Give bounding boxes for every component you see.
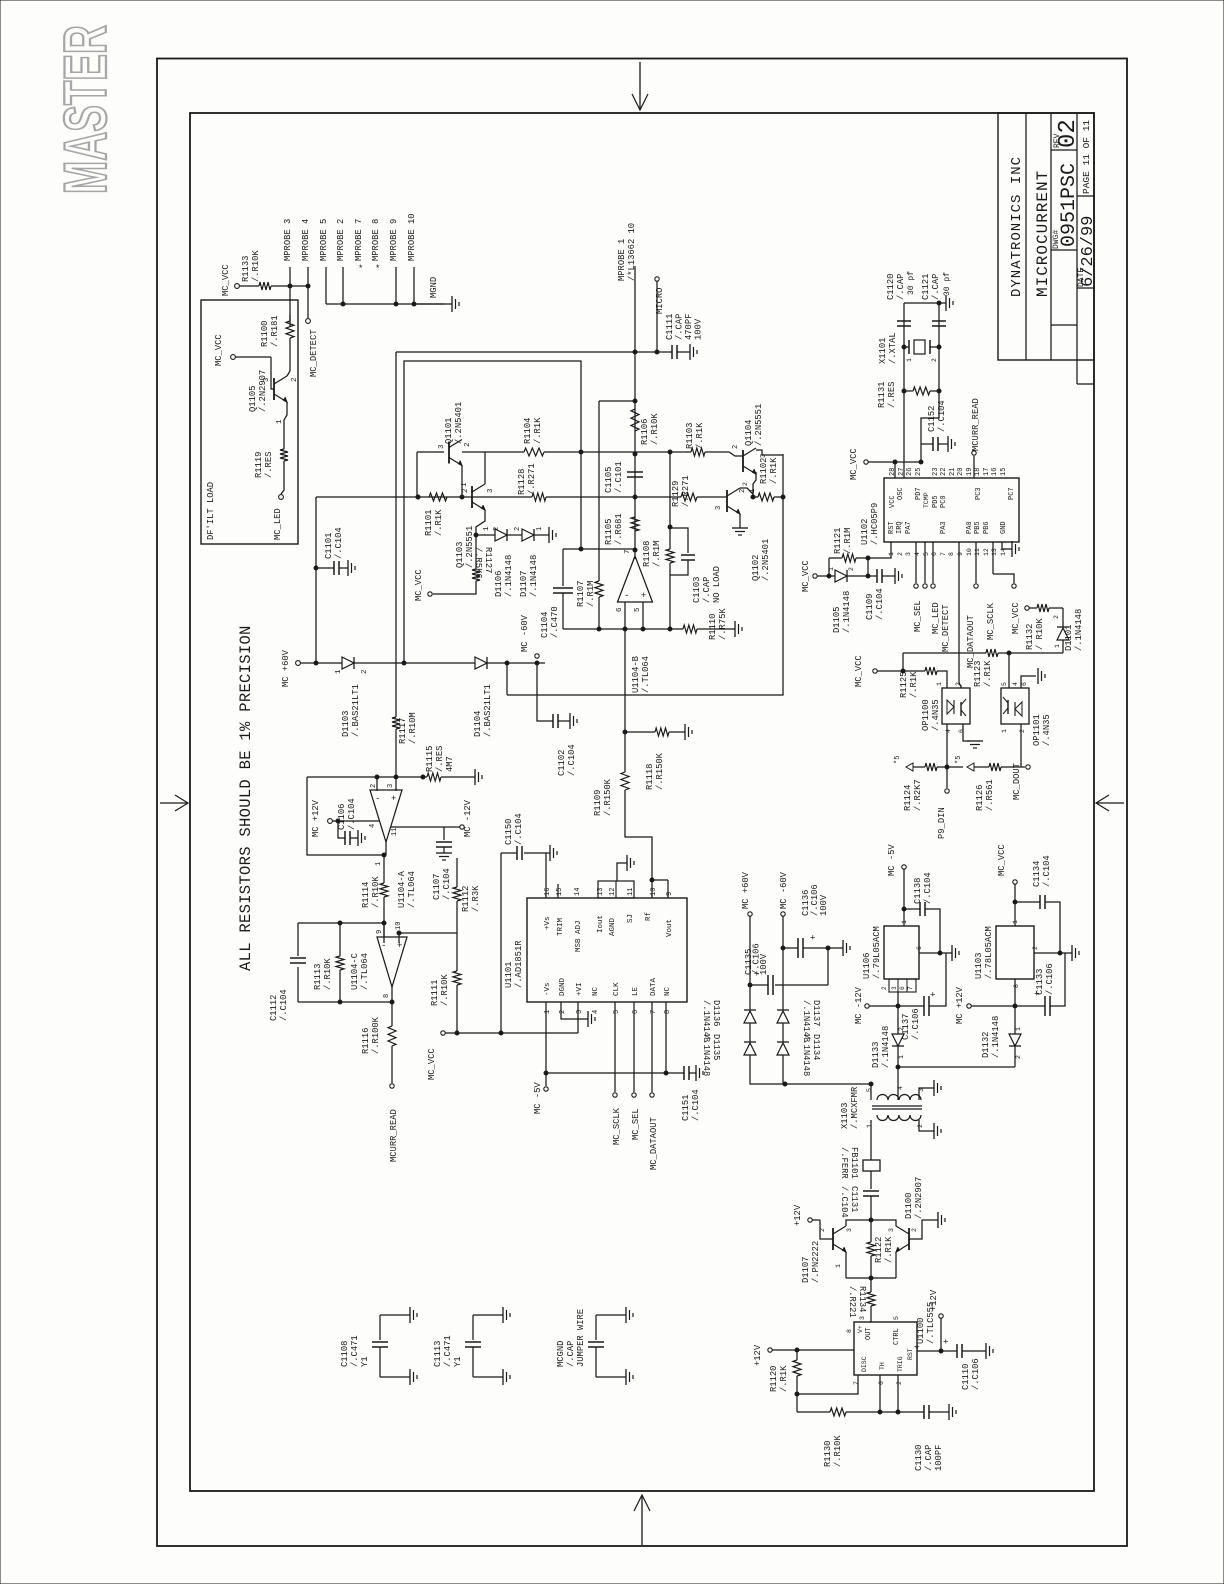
svg-text:2: 2	[896, 1381, 903, 1385]
wire to Q1105 base	[271, 357, 274, 389]
wire R1133 to bus	[271, 285, 308, 287]
wire MPROBE10	[413, 267, 415, 304]
svg-text:/.R10M: /.R10M	[408, 712, 418, 744]
svg-text:C1138: C1138	[913, 878, 923, 904]
wire Q1107 collector	[846, 1220, 871, 1226]
svg-text:R1117: R1117	[398, 718, 408, 744]
svg-text:R1105: R1105	[604, 519, 614, 545]
svg-text:3: 3	[891, 986, 898, 990]
svg-text:2: 2	[931, 358, 938, 362]
svg-text:/.CAP: /.CAP	[896, 274, 906, 300]
svg-text:3: 3	[387, 784, 395, 788]
svg-text:/.C471: /.C471	[350, 1335, 360, 1367]
svg-text:6: 6	[899, 986, 906, 990]
wire y454 b	[635, 451, 691, 453]
svg-text:4: 4	[592, 1010, 600, 1014]
svg-text:3: 3	[487, 488, 495, 493]
capacitor C1137	[923, 996, 925, 1016]
svg-text:ALL RESISTORS SHOULD BE 1% PRE: ALL RESISTORS SHOULD BE 1% PRECISION	[237, 625, 255, 971]
svg-text:+: +	[942, 1339, 952, 1344]
ground MSB box	[617, 863, 627, 881]
ground C1151	[689, 1072, 696, 1074]
svg-text:1: 1	[1001, 729, 1008, 733]
wire R1134 pin3	[869, 1321, 871, 1323]
svg-text:3: 3	[263, 377, 271, 382]
svg-text:/.R10K: /.R10K	[371, 876, 381, 908]
wire R1120 down	[796, 1376, 798, 1412]
wire pin3 drop	[577, 1002, 579, 1033]
capacitor C1105	[627, 471, 643, 473]
wire Q1105 emitter	[284, 402, 287, 449]
svg-text:DGND: DGND	[559, 977, 567, 996]
wire Q1102 base	[722, 496, 727, 498]
svg-text:/.R75K: /.R75K	[718, 608, 728, 640]
svg-text:2: 2	[739, 489, 747, 493]
wire pin1 rst	[856, 542, 891, 558]
svg-text:6: 6	[931, 552, 938, 556]
wire y1073	[546, 1072, 684, 1074]
wire pin5 led	[924, 542, 926, 583]
svg-text:V+: V+	[857, 1325, 864, 1333]
svg-text:MC -12V: MC -12V	[854, 986, 864, 1024]
svg-text:MSB ADJ: MSB ADJ	[575, 920, 583, 952]
svg-text:/.TL064: /.TL064	[407, 871, 417, 908]
capacitor C1151	[683, 1066, 685, 1080]
svg-text:C1110: C1110	[961, 1364, 971, 1390]
ferrite FB1101	[863, 1160, 880, 1171]
svg-text:3: 3	[715, 506, 723, 510]
wire pin1 drop	[545, 1002, 547, 1073]
svg-text:/.TL064: /.TL064	[360, 953, 370, 990]
svg-text:Q1104: Q1104	[744, 420, 754, 446]
transistor Q1107 PN2222	[832, 1228, 834, 1250]
svg-text:R1128: R1128	[517, 469, 527, 495]
svg-text:PA3: PA3	[940, 521, 948, 534]
svg-text:R1123: R1123	[973, 661, 983, 687]
svg-text:/.R10K: /.R10K	[251, 250, 261, 282]
wire pin2 gnd	[561, 1002, 588, 1019]
svg-text:/.R1K: /.R1K	[533, 417, 543, 444]
capacitor C1101	[316, 567, 334, 569]
svg-text:4: 4	[914, 552, 921, 556]
svg-text:1: 1	[901, 920, 908, 924]
svg-text:MC_SEL: MC_SEL	[631, 1108, 641, 1140]
wire loop C bottom	[298, 1001, 392, 1003]
node MCURR_READ right	[972, 451, 976, 455]
svg-text:*5: *5	[894, 756, 902, 764]
svg-text:6: 6	[878, 1381, 885, 1385]
wire loop C top	[298, 922, 384, 924]
wire y653 left leg	[902, 653, 904, 671]
svg-text:/.R150K: /.R150K	[655, 752, 665, 790]
diode D1135	[744, 1043, 756, 1055]
svg-text:C1107: C1107	[432, 874, 442, 900]
svg-text:MC_SEL: MC_SEL	[913, 600, 923, 632]
svg-text:C1101: C1101	[324, 533, 334, 559]
transistor Q1102	[726, 490, 728, 512]
svg-text:/.R1K: /.R1K	[779, 1365, 789, 1392]
svg-text:/ R10K: / R10K	[1035, 618, 1045, 650]
svg-text:D1101: D1101	[1064, 625, 1074, 651]
resistor R1129	[681, 493, 697, 501]
svg-text:100V: 100V	[819, 894, 829, 916]
svg-text:TRIM: TRIM	[557, 917, 565, 936]
svg-text:R1111: R1111	[430, 980, 440, 1006]
wire X1103 pin2	[919, 1120, 934, 1131]
svg-text:8: 8	[846, 1329, 853, 1333]
regulator U1103 78L05ACM	[996, 926, 1034, 979]
diode D1137	[777, 1011, 789, 1023]
svg-text:2: 2	[742, 482, 749, 486]
box U1106 pins	[889, 979, 916, 992]
svg-text:R1107: R1107	[576, 581, 586, 607]
svg-text:1: 1	[906, 358, 913, 362]
border inner frame	[190, 113, 1094, 1491]
resistor R1108	[669, 527, 671, 549]
wire MPROBE5	[325, 267, 327, 304]
svg-text:R1109: R1109	[593, 790, 603, 816]
svg-text:P9_DIN: P9_DIN	[937, 807, 947, 839]
svg-text:16: 16	[544, 888, 552, 896]
svg-text:/.C104: /.C104	[937, 400, 947, 432]
wire D1134 down	[782, 1055, 784, 1084]
resistor R1132	[1037, 604, 1049, 612]
svg-text:/.79L05ACM: /.79L05ACM	[872, 926, 882, 979]
svg-text:4: 4	[1012, 682, 1019, 686]
wire OP1101 pin2 down	[1020, 724, 1022, 767]
capacitor C1120	[897, 320, 911, 322]
ground D1107b	[534, 534, 549, 536]
resistor R1110	[683, 625, 697, 633]
svg-text:MC_LED: MC_LED	[273, 508, 283, 540]
svg-text:X1103: X1103	[840, 1103, 850, 1129]
resistor R1102	[753, 496, 758, 498]
svg-text:2: 2	[464, 442, 472, 447]
title block grid	[998, 113, 1094, 360]
svg-text:MC_VCC: MC_VCC	[801, 560, 811, 592]
wire pin6 detect	[932, 542, 934, 583]
svg-text:/.C101: /.C101	[614, 461, 624, 493]
diode D1133	[892, 1034, 904, 1046]
wire X1103 pin4	[897, 1085, 899, 1100]
svg-text:0951PSC: 0951PSC	[1058, 163, 1081, 247]
resistor R1113	[339, 923, 341, 956]
svg-text:1: 1	[375, 862, 383, 866]
svg-text:R1122: R1122	[874, 1237, 884, 1263]
svg-text:R1103: R1103	[685, 423, 695, 449]
wire pin15 stub	[557, 884, 559, 898]
svg-text:2: 2	[898, 1027, 905, 1031]
svg-text:1: 1	[828, 567, 835, 571]
svg-text:PA0: PA0	[966, 521, 974, 534]
svg-text:3: 3	[846, 1228, 853, 1232]
wire xtal top	[904, 302, 939, 304]
transistor Q1103	[471, 486, 473, 508]
node MC_VCC u1103	[1013, 880, 1017, 884]
wire FB1101 down	[870, 1171, 872, 1189]
op-amp U1104-A	[370, 790, 402, 842]
wire y454	[581, 451, 635, 453]
svg-text:D1105: D1105	[832, 607, 842, 633]
wire Q1107 base	[820, 1220, 833, 1239]
node MC_VCC rst	[813, 574, 817, 578]
ground C1102	[558, 720, 570, 722]
svg-text:18: 18	[974, 468, 982, 476]
wire MPROBE9	[395, 267, 397, 304]
capacitor C1150	[501, 852, 517, 854]
wire D1135 down	[750, 1055, 871, 1084]
svg-text:1: 1	[544, 1010, 552, 1014]
svg-text:11: 11	[974, 548, 981, 556]
svg-text:/.R1K: /.R1K	[909, 671, 919, 698]
svg-text:/.R2K7: /.R2K7	[913, 779, 923, 811]
svg-text:2: 2	[361, 669, 369, 674]
svg-text:/.1N4148: /.1N4148	[529, 555, 539, 597]
node +12V r1120	[768, 1348, 772, 1352]
centering arrow top	[639, 62, 641, 109]
transformer X1103 core	[872, 1105, 922, 1107]
centering arrow bottom	[641, 1496, 643, 1545]
wire R1119 to MC_LED	[281, 461, 284, 494]
wire pin6 th	[879, 1375, 881, 1412]
svg-text:8: 8	[1013, 984, 1020, 988]
svg-text:TH: TH	[879, 1362, 886, 1370]
svg-text:/.R10K: /.R10K	[650, 413, 660, 445]
svg-text:-Vs: -Vs	[544, 982, 552, 996]
svg-text:R1127: R1127	[483, 547, 493, 573]
node MC_DOUT	[1021, 766, 1025, 768]
optocoupler OP1100	[942, 688, 970, 724]
svg-text:+: +	[929, 992, 939, 997]
resistor R1128	[532, 493, 546, 501]
svg-text:/.R10K: /.R10K	[323, 958, 333, 990]
node MC -60V	[535, 654, 539, 658]
diode D1104	[475, 657, 487, 669]
op-amp U1104-C	[377, 937, 407, 987]
wire y1412	[797, 1411, 830, 1413]
ground MGND	[414, 303, 452, 305]
wire C1133 right	[1050, 953, 1065, 1006]
capacitor C1152	[921, 443, 933, 445]
svg-text:LE: LE	[632, 986, 640, 996]
svg-text:2: 2	[911, 1228, 918, 1232]
svg-text:2: 2	[917, 1124, 924, 1128]
node MC -5V reg	[902, 865, 906, 869]
svg-text:/.1N4148: /.1N4148	[801, 1034, 811, 1076]
svg-text:/.C104: /.C104	[442, 868, 452, 900]
wire Q1107 emitter	[845, 1252, 847, 1278]
svg-text:+12V: +12V	[929, 1289, 939, 1311]
diode D1103	[342, 657, 354, 669]
svg-text:/.C104: /.C104	[691, 1089, 701, 1121]
svg-text:R1108: R1108	[642, 541, 652, 567]
svg-text:Q1103: Q1103	[455, 542, 465, 568]
svg-text:6: 6	[916, 946, 923, 950]
wire MC_VCC dac row	[441, 1031, 445, 1035]
wire y401	[599, 400, 635, 402]
svg-text:/.R1K: /.R1K	[884, 1236, 894, 1263]
svg-text:8: 8	[383, 994, 391, 998]
svg-text:/.R271: /.R271	[681, 475, 691, 507]
wire Q1103 collector up	[484, 452, 486, 484]
wire probe ground bus	[326, 303, 444, 305]
wire pin11 sclk	[975, 542, 977, 583]
svg-text:1: 1	[536, 527, 544, 531]
wire U1106 pin1	[903, 918, 905, 926]
svg-text:R1120: R1120	[769, 1366, 779, 1392]
svg-text:D1136: D1136	[711, 1000, 721, 1026]
svg-text:MC -60V: MC -60V	[520, 614, 530, 652]
optocoupler OP1101	[1001, 688, 1029, 724]
svg-text:7: 7	[940, 552, 947, 556]
border outer frame	[157, 59, 1127, 1547]
svg-text:100V: 100V	[759, 953, 769, 975]
svg-text:/.2N5401: /.2N5401	[454, 402, 464, 444]
op-amp U1104-B	[618, 556, 653, 602]
capacitor C1138	[904, 908, 920, 910]
svg-text:/.FERR: /.FERR	[839, 1147, 849, 1179]
resistor R1119	[280, 449, 288, 461]
wire pin4 sel	[915, 542, 917, 583]
svg-text:/.CAP: /.CAP	[924, 1445, 934, 1471]
svg-text:/.R150K: /.R150K	[603, 778, 613, 816]
svg-text:AGND: AGND	[609, 917, 617, 936]
resistor R1125	[925, 667, 937, 675]
wire U1104-A in2	[376, 777, 378, 791]
wire C1137 right	[929, 953, 946, 1006]
svg-text:MC_VCC: MC_VCC	[854, 655, 864, 687]
node MC -5V	[544, 1087, 548, 1091]
wire pin7 disc	[797, 1375, 858, 1394]
resistor R1100	[286, 321, 294, 338]
transistor Q1105	[273, 378, 275, 400]
svg-text:MC -5V: MC -5V	[887, 844, 897, 876]
wire U1104-B in5	[642, 602, 644, 629]
wire C1134 right	[1045, 902, 1060, 953]
svg-text:+: +	[641, 591, 646, 601]
ground U1103 pin2	[1071, 945, 1073, 961]
svg-text:1: 1	[835, 1264, 842, 1268]
svg-text:/.2N5401: /.2N5401	[761, 539, 771, 581]
node MC_LED	[279, 495, 284, 500]
flag +5 right	[967, 763, 974, 771]
svg-text:C1150: C1150	[504, 819, 514, 845]
svg-text:PC3: PC3	[975, 487, 983, 500]
ground U1106 pin6	[951, 945, 953, 961]
svg-text:VCC: VCC	[889, 495, 897, 508]
resistor R1104	[462, 451, 524, 453]
wire R1121 right drop	[867, 558, 869, 576]
svg-text:Y1: Y1	[453, 1356, 463, 1367]
svg-text:R1131: R1131	[877, 382, 887, 408]
svg-text:D1132: D1132	[981, 1032, 991, 1058]
resistor R1116	[388, 1026, 396, 1046]
svg-text:2: 2	[291, 377, 299, 382]
wire C1101 vertical	[315, 497, 317, 663]
capacitor C1112	[290, 957, 306, 959]
svg-text:MC_VCC: MC_VCC	[414, 569, 424, 601]
svg-text:5: 5	[613, 1010, 621, 1014]
svg-text:R1125: R1125	[899, 672, 909, 698]
ground C1107	[436, 852, 452, 854]
wire R1107 branch	[598, 401, 600, 581]
svg-text:U1102: U1102	[860, 519, 870, 545]
node MC_VCC in box	[231, 355, 236, 360]
wire X1103 pin1	[870, 1120, 872, 1160]
wire loop A left	[307, 777, 386, 855]
svg-text:OP1100: OP1100	[921, 699, 931, 731]
svg-text:Rf: Rf	[645, 911, 653, 921]
ground C1109	[882, 575, 895, 577]
svg-text:/.R10K: /.R10K	[440, 974, 450, 1006]
svg-text:D1137: D1137	[811, 1000, 821, 1026]
wire D1105 to C1109	[847, 575, 877, 577]
svg-text:15: 15	[1000, 468, 1008, 476]
wire C1104 top	[563, 548, 635, 550]
wire OP1100 pin4 down	[946, 724, 948, 767]
svg-text:/.C106: /.C106	[971, 1358, 981, 1390]
capacitor C1108	[379, 1315, 381, 1340]
svg-text:SJ: SJ	[627, 914, 635, 923]
svg-text:R1126: R1126	[975, 785, 985, 811]
svg-text:D1103: D1103	[341, 711, 351, 737]
svg-text:R1115: R1115	[425, 746, 435, 772]
wire R1100 to Q1105	[289, 338, 291, 371]
svg-text:/.HC05P9: /.HC05P9	[870, 503, 880, 545]
svg-text:TRIG: TRIG	[897, 1356, 904, 1372]
node MICRO	[655, 277, 659, 281]
svg-text:DATA: DATA	[650, 977, 658, 996]
svg-text:/.BAS21LT1: /.BAS21LT1	[351, 684, 361, 737]
diode D1105	[835, 570, 847, 582]
svg-text:/.C106: /.C106	[911, 1008, 921, 1040]
diode D1132	[1009, 1034, 1021, 1046]
centering arrow left	[160, 802, 187, 804]
capacitor C1111	[671, 345, 673, 359]
svg-text:R1114: R1114	[361, 882, 371, 908]
svg-text:/.RES: /.RES	[887, 382, 897, 408]
svg-text:C1112: C1112	[269, 995, 279, 1021]
svg-text:3: 3	[576, 1010, 584, 1014]
svg-text:MCGND: MCGND	[556, 1341, 566, 1367]
svg-text:R1104: R1104	[523, 418, 533, 444]
svg-text:MCURR_READ: MCURR_READ	[389, 1109, 399, 1162]
svg-text:/.R271: /.R271	[527, 463, 537, 495]
svg-text:/.2N2907: /.2N2907	[258, 370, 268, 412]
wire R1127 to MC_VCC	[433, 581, 476, 594]
node MC_VCC mid	[428, 592, 432, 596]
svg-text:D1100: D1100	[904, 1193, 914, 1219]
svg-text:2: 2	[819, 1228, 826, 1232]
node MC -12V	[460, 825, 464, 829]
svg-text:4: 4	[945, 729, 952, 733]
svg-text:C1109: C1109	[865, 594, 875, 620]
wire U1104-A out	[383, 855, 385, 883]
svg-text:MC +12V: MC +12V	[955, 986, 965, 1024]
svg-text:11: 11	[391, 828, 399, 836]
svg-text:/.R10K: /.R10K	[833, 1435, 843, 1467]
svg-text:6/26/99: 6/26/99	[1079, 216, 1098, 287]
svg-text:MPROBE 8: MPROBE 8	[371, 219, 381, 261]
svg-text:U1101: U1101	[504, 962, 514, 988]
svg-text:MC +60V: MC +60V	[281, 649, 291, 687]
svg-text:C1103: C1103	[692, 577, 702, 603]
svg-text:PD5: PD5	[932, 495, 940, 508]
svg-text:2: 2	[897, 552, 904, 556]
wire y497	[316, 496, 470, 498]
wire pin10 pin9 bracket	[652, 879, 668, 881]
node +12V q	[808, 1218, 812, 1222]
